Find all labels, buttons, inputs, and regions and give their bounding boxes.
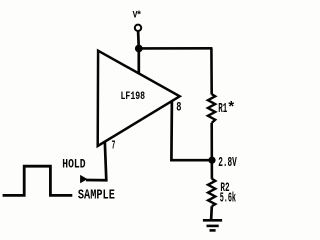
wire arrow to pin 7: [86, 141, 106, 180]
junction dot node 2.8V: [208, 157, 215, 164]
V* terminal circle: [135, 25, 141, 31]
svg-text:*: *: [227, 100, 236, 117]
svg-text:2.8V: 2.8V: [218, 155, 237, 171]
wire junction to right rail: [139, 47, 213, 50]
wire pin 8 down: [171, 101, 211, 160]
junction dot at V+: [135, 45, 143, 53]
op-amp U1 LF198 triangle: [98, 51, 180, 146]
rail between R1 and 2.8V node: [210, 123, 213, 179]
svg-text:8: 8: [176, 100, 181, 115]
svg-text:SAMPLE: SAMPLE: [78, 188, 115, 204]
svg-text:*: *: [136, 10, 142, 22]
wire V* terminal to junction: [137, 31, 140, 49]
svg-text:LF198: LF198: [121, 91, 146, 103]
wire R2 to ground: [210, 206, 213, 220]
node V* label: [133, 10, 142, 22]
input arrowhead: [80, 175, 88, 183]
svg-text:5.6k: 5.6k: [220, 191, 236, 206]
label R1*: [218, 100, 236, 117]
ground: [203, 220, 222, 230]
resistor R2 zigzag: [208, 179, 215, 207]
right rail upper segment: [210, 48, 213, 94]
svg-text:7: 7: [112, 140, 116, 153]
HOLD/SAMPLE pulse waveform: [3, 166, 73, 195]
resistor R1 zigzag: [208, 94, 215, 123]
wire junction down to op-amp V+ pin: [137, 49, 140, 74]
svg-text:HOLD: HOLD: [62, 157, 85, 172]
